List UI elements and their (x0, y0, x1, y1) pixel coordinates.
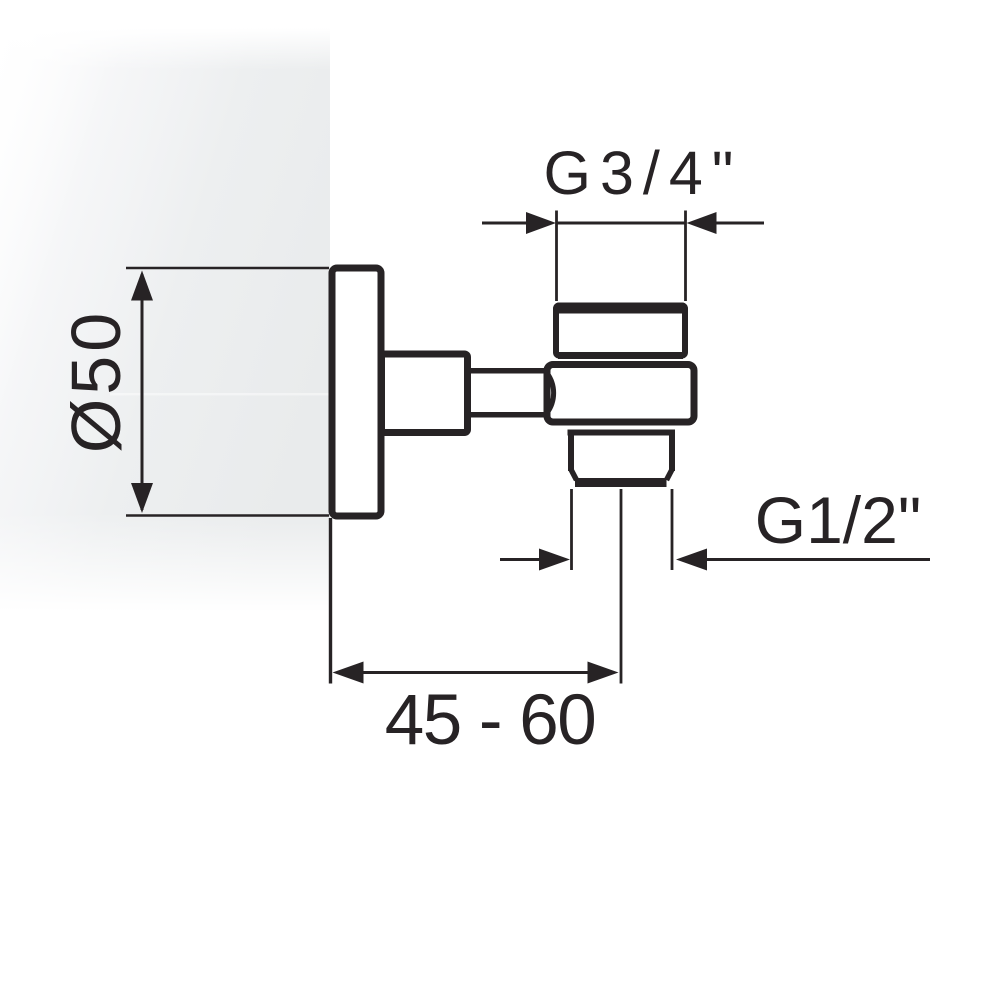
thread left edge (568, 430, 574, 472)
dimension G1/2 right arrow (676, 549, 707, 571)
pipe stub (382, 354, 468, 433)
dimension G3/4 left shaft (482, 222, 527, 225)
valve body (547, 365, 694, 423)
dimension 45-60 line shaft (360, 671, 591, 674)
svg-text:Ø50: Ø50 (57, 309, 135, 453)
socket arc (547, 373, 554, 413)
outlet thread G1/2 fill (570, 432, 671, 479)
dimension Ø50 arrow up (131, 271, 153, 301)
dimension G1/2 extension line right (671, 489, 674, 570)
pipe bottom line (464, 412, 549, 418)
dimension G1/2 left arrow (539, 549, 570, 571)
dimension G3/4 right shaft (716, 222, 764, 225)
dimension G3/4 extension line right (684, 211, 687, 302)
pipe top line (464, 368, 549, 374)
union nut G3/4 (556, 306, 685, 356)
dimension G3/4 extension line left (555, 211, 558, 302)
nut top bar (559, 303, 682, 314)
dimension G3/4 middle shaft (557, 222, 686, 225)
dimension 45-60 right arrow (588, 662, 619, 684)
thread right edge (669, 430, 675, 472)
dimension G1/2 right shaft (706, 558, 930, 561)
dimension Ø50 extension line bottom (126, 514, 329, 517)
thread right chamfer (667, 470, 673, 481)
dimension G3/4 right arrow (687, 212, 717, 234)
dimension G1/2 left shaft (500, 558, 540, 561)
dimension 45-60 left arrow (333, 662, 364, 684)
dimension Ø50 extension line top (126, 267, 329, 270)
dimension G3/4 left arrow (526, 212, 556, 234)
svg-text:G3/4": G3/4" (544, 139, 743, 207)
wall edge line / 45-60 left extension (329, 518, 332, 684)
svg-text:G1/2": G1/2" (755, 483, 922, 557)
thread top edge (568, 430, 676, 436)
svg-text:45 - 60: 45 - 60 (385, 681, 596, 760)
dimension Ø50 arrow down (131, 483, 153, 513)
wall (gradient block) (0, 28, 330, 612)
flange (332, 268, 381, 516)
nut bottom bar (558, 352, 683, 359)
wall highlight seam (110, 393, 330, 395)
dimension Ø50 line (141, 274, 144, 510)
thread bottom bar (575, 478, 667, 487)
thread left chamfer (571, 470, 577, 481)
dimension 45-60 center extension (620, 489, 623, 684)
dimension G1/2 extension line left (570, 489, 573, 570)
